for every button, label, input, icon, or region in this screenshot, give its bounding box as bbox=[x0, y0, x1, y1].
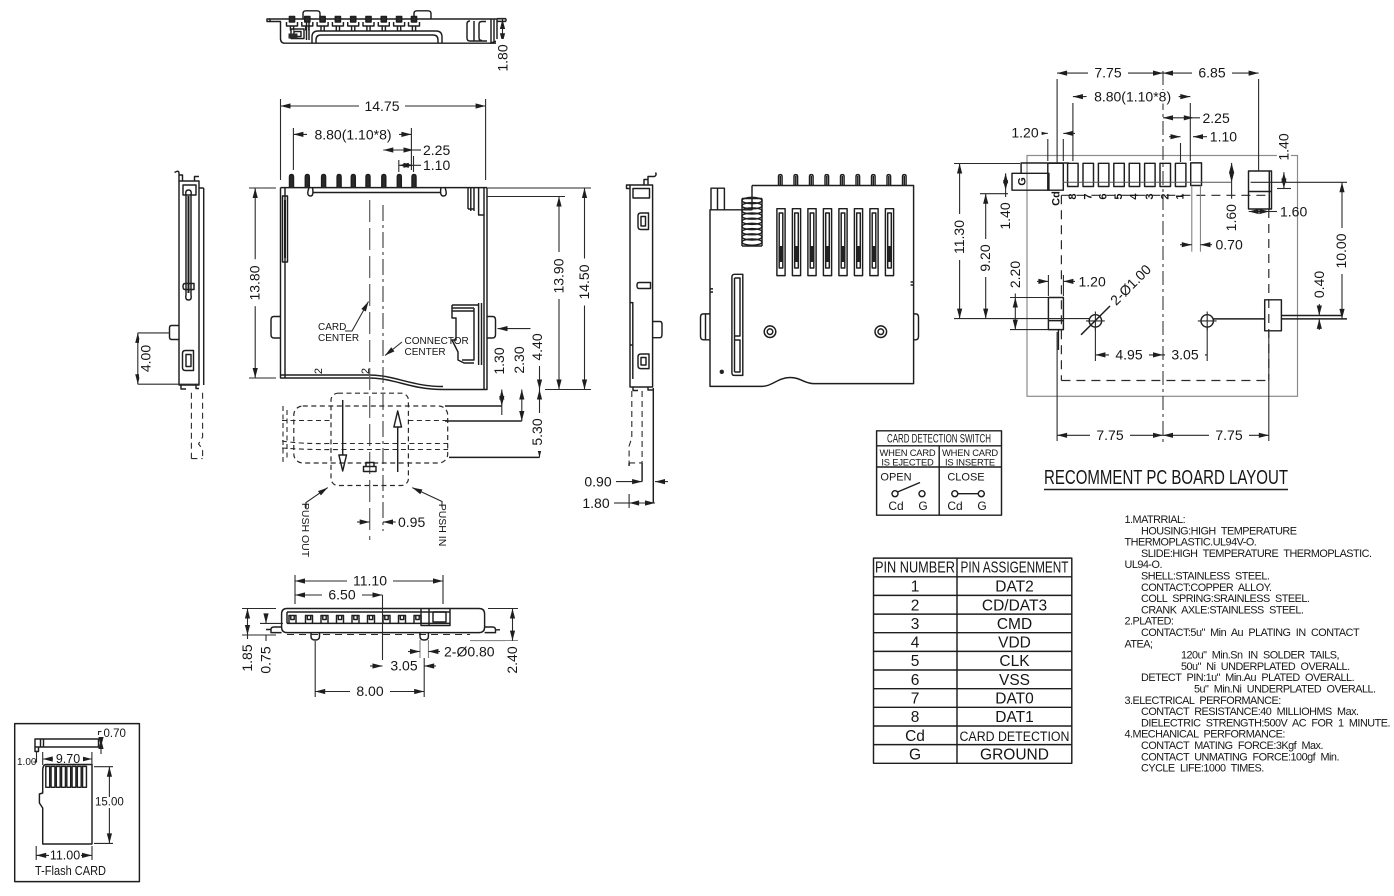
svg-text:6: 6 bbox=[911, 672, 920, 689]
top view right flange bbox=[490, 19, 506, 44]
view: connector top view bbox=[267, 11, 511, 77]
right side dashed tail bbox=[629, 391, 632, 463]
svg-text:G: G bbox=[918, 499, 927, 513]
top view pins row bbox=[287, 17, 420, 27]
front view body outline bbox=[281, 188, 488, 390]
svg-text:11.00: 11.00 bbox=[50, 848, 80, 862]
dim 1.80 bbox=[614, 502, 629, 504]
svg-text:8: 8 bbox=[911, 709, 920, 726]
svg-text:4: 4 bbox=[911, 635, 920, 652]
svg-text:1.10: 1.10 bbox=[423, 157, 450, 173]
svg-text:14.75: 14.75 bbox=[364, 98, 399, 114]
dim pcb 8.80(1.10*8) bbox=[1072, 103, 1074, 161]
dim pcb 4.95 bbox=[1094, 328, 1096, 361]
dim 13.80 bbox=[249, 187, 276, 189]
bsv right flange bbox=[485, 627, 500, 633]
top view pin stems bbox=[290, 26, 415, 31]
svg-text:CYCLE LIFE:1000 TIMES.: CYCLE LIFE:1000 TIMES. bbox=[1141, 763, 1264, 775]
top view bump left bbox=[303, 11, 320, 19]
top view bump right bbox=[414, 11, 431, 19]
pcb G pad bbox=[1012, 173, 1049, 190]
left side bottom feet bbox=[181, 385, 199, 389]
svg-text:CARD: CARD bbox=[318, 322, 346, 333]
right side skirt lines bbox=[629, 388, 653, 503]
dim 4.00 bbox=[138, 332, 170, 334]
svg-text:CLOSE: CLOSE bbox=[947, 472, 984, 484]
card front outline bbox=[39, 765, 92, 845]
svg-text:10.00: 10.00 bbox=[1333, 233, 1349, 268]
svg-text:2.20: 2.20 bbox=[1007, 261, 1023, 288]
svg-text:SLIDE:HIGH TEMPERATURE THERMOP: SLIDE:HIGH TEMPERATURE THERMOPLASTIC. bbox=[1141, 548, 1372, 560]
svg-text:G: G bbox=[1017, 177, 1029, 186]
svg-text:4.00: 4.00 bbox=[138, 345, 154, 372]
dim 14.50 bbox=[487, 187, 591, 189]
svg-text:CARD DETECTION SWITCH: CARD DETECTION SWITCH bbox=[887, 433, 991, 445]
svg-text:G: G bbox=[909, 747, 921, 764]
pcb G pad step join bbox=[1021, 163, 1069, 173]
svg-text:Cd: Cd bbox=[905, 728, 925, 745]
left side mid pill bbox=[183, 284, 194, 290]
bottom view pins bbox=[779, 175, 907, 186]
dim pcb 7.75 top left bbox=[1056, 79, 1058, 163]
svg-text:1.60: 1.60 bbox=[1223, 204, 1239, 231]
view: bottom side (mounting) view bbox=[239, 573, 520, 700]
push-out arrow (open head, down) bbox=[342, 400, 344, 455]
svg-text:CARD DETECTION: CARD DETECTION bbox=[960, 729, 1070, 744]
svg-text:8.80(1.10*8): 8.80(1.10*8) bbox=[314, 127, 391, 143]
svg-text:1.80: 1.80 bbox=[495, 44, 511, 71]
svg-text:CONNECTOR: CONNECTOR bbox=[405, 336, 469, 347]
left side dashed tail bbox=[190, 393, 192, 459]
dim pcb 10.00 bbox=[1251, 181, 1347, 183]
svg-text:1.MATRRIAL:: 1.MATRRIAL: bbox=[1125, 514, 1186, 526]
svg-text:Cd: Cd bbox=[888, 499, 903, 513]
view: T-Flash card detail bbox=[15, 724, 140, 882]
front view right side bump bbox=[487, 317, 496, 339]
dim pcb 1.60 horizontal bbox=[1249, 211, 1270, 213]
dim pcb 3.05 bbox=[1206, 328, 1208, 361]
dim 8.00 bbox=[314, 641, 316, 697]
svg-text:DAT2: DAT2 bbox=[995, 579, 1033, 596]
bottom view edge notches bbox=[710, 282, 914, 292]
bsv hidden bottom dashed bbox=[287, 634, 470, 636]
dim 2.30 bbox=[445, 420, 522, 422]
view: connector bottom view bbox=[701, 175, 919, 387]
right side body bbox=[630, 185, 653, 387]
dim 1.30 bbox=[445, 405, 502, 407]
dim pcb 0.40 bbox=[1318, 304, 1320, 316]
svg-text:11.10: 11.10 bbox=[353, 573, 387, 589]
view: dashed ejected card region below front view bbox=[282, 328, 545, 558]
left side top hook bbox=[175, 171, 183, 181]
left side lower window bbox=[183, 351, 194, 371]
svg-text:COLL SPRING:SRAINLESS STEEL.: COLL SPRING:SRAINLESS STEEL. bbox=[1141, 593, 1310, 605]
svg-text:CRANK AXLE:STAINLESS STEEL.: CRANK AXLE:STAINLESS STEEL. bbox=[1141, 604, 1304, 616]
bottom view mount holes bbox=[764, 326, 776, 338]
card side view bar bbox=[35, 739, 99, 752]
svg-text:7: 7 bbox=[911, 691, 920, 708]
top view inner slide bbox=[312, 31, 442, 43]
dim pcb 1.20 top bbox=[1047, 139, 1049, 161]
svg-text:CONTACT UNMATING FORCE:100gf M: CONTACT UNMATING FORCE:100gf Min. bbox=[1141, 751, 1339, 763]
dim pcb 0.70 bbox=[1191, 186, 1193, 252]
dim 2.40 bbox=[488, 608, 518, 610]
pcb centerline dash-dot bbox=[1162, 71, 1164, 442]
svg-text:4.40: 4.40 bbox=[529, 333, 545, 360]
front view bottom inner line bbox=[281, 375, 444, 387]
svg-text:8: 8 bbox=[1067, 193, 1079, 199]
right side mid pill bbox=[637, 283, 651, 289]
svg-text:6: 6 bbox=[1098, 193, 1110, 199]
svg-text:5.30: 5.30 bbox=[529, 418, 545, 445]
dim 15.00 card bbox=[94, 766, 113, 768]
svg-text:CONTACT RESISTANCE:40 MILLIOHM: CONTACT RESISTANCE:40 MILLIOHMS Max. bbox=[1141, 706, 1359, 718]
svg-text:120u" Min.Sn IN SOLDER TAILS,: 120u" Min.Sn IN SOLDER TAILS, bbox=[1181, 650, 1340, 662]
dim pcb 7.75 bottom right bbox=[1268, 332, 1270, 441]
svg-text:0.90: 0.90 bbox=[584, 474, 611, 490]
dim 0.70 card bbox=[98, 731, 100, 735]
top view right inner detail bbox=[467, 21, 487, 41]
connector center line (dash-dot) bbox=[382, 205, 384, 531]
pcb left bottom pad bbox=[1048, 298, 1063, 330]
t-flash frame box bbox=[15, 724, 140, 882]
svg-text:1.20: 1.20 bbox=[1079, 273, 1106, 289]
pcb mount hole right bbox=[1201, 315, 1213, 327]
svg-text:T-Flash CARD: T-Flash CARD bbox=[35, 863, 106, 878]
dim pcb 7.75 bottom left bbox=[1056, 332, 1058, 441]
label PUSH OUT bbox=[306, 488, 328, 508]
svg-text:50u" Ni UNDERPLATED OVERALL.: 50u" Ni UNDERPLATED OVERALL. bbox=[1181, 661, 1350, 673]
dim pcb 6.85 top right bbox=[1258, 79, 1260, 171]
pcb mount hole left bbox=[1089, 315, 1101, 327]
front view pins bbox=[290, 175, 417, 188]
part number 2 marks rotated bbox=[313, 368, 325, 374]
dim 1.85 bbox=[242, 608, 276, 610]
svg-text:4.95: 4.95 bbox=[1115, 346, 1142, 362]
dim 14.75 bbox=[280, 99, 282, 180]
svg-text:0.70: 0.70 bbox=[104, 728, 126, 740]
dim 5.30 bbox=[449, 456, 540, 458]
svg-text:5: 5 bbox=[911, 653, 920, 670]
dim 4.40 bbox=[498, 328, 540, 330]
dashed card rect horizontal position bbox=[294, 406, 448, 463]
svg-text:2.25: 2.25 bbox=[423, 142, 450, 158]
bsv contact feet row bbox=[289, 616, 421, 624]
dim 1.80 top view bbox=[502, 19, 504, 43]
svg-text:1.40: 1.40 bbox=[997, 202, 1013, 229]
pcb contact pads 8..1 bbox=[1068, 163, 1186, 186]
svg-text:7: 7 bbox=[1082, 193, 1094, 199]
svg-text:5u" Min.Ni UNDERPLATED OVERALL: 5u" Min.Ni UNDERPLATED OVERALL. bbox=[1194, 684, 1376, 696]
svg-text:DETECT PIN:1u" Min.Au PLATED O: DETECT PIN:1u" Min.Au PLATED OVERALL. bbox=[1141, 672, 1355, 684]
bottom view contact dark segments bbox=[781, 246, 890, 262]
svg-text:UL94-O.: UL94-O. bbox=[1125, 559, 1163, 571]
open switch symbol bbox=[892, 491, 898, 497]
dim pcb 1.20 bbox=[1047, 275, 1049, 296]
table: pin assignment bbox=[874, 558, 1072, 763]
card contact stripes bbox=[46, 766, 87, 787]
svg-text:7.75: 7.75 bbox=[1096, 427, 1123, 443]
svg-text:IS INSERTE: IS INSERTE bbox=[945, 457, 995, 468]
svg-text:2.40: 2.40 bbox=[504, 646, 520, 673]
pcb pad number labels bbox=[1017, 177, 1187, 206]
bottom view side bumps bbox=[701, 314, 711, 340]
dim 9.70 card bbox=[42, 752, 44, 765]
svg-text:HOUSING:HIGH TEMPERATURE: HOUSING:HIGH TEMPERATURE bbox=[1141, 525, 1297, 537]
dim pcb 2.20 bbox=[1010, 297, 1048, 299]
svg-text:4.MECHANICAL PERFORMANCE:: 4.MECHANICAL PERFORMANCE: bbox=[1125, 729, 1286, 741]
pcb drill callout 2-dia1.00 bbox=[1081, 306, 1110, 335]
left side slot bbox=[186, 190, 191, 300]
view: recommended PC board layout bbox=[951, 65, 1349, 490]
svg-text:6.85: 6.85 bbox=[1198, 65, 1225, 81]
svg-text:1.40: 1.40 bbox=[1275, 133, 1291, 160]
left side 4.00 reference bump bbox=[170, 326, 180, 340]
svg-text:OPEN: OPEN bbox=[880, 472, 911, 484]
top view left mount tab bbox=[267, 19, 270, 22]
view: left side view bbox=[138, 171, 204, 458]
svg-text:2-Ø0.80: 2-Ø0.80 bbox=[444, 644, 495, 660]
svg-text:3: 3 bbox=[911, 616, 920, 633]
pcb board outline (gray) bbox=[1027, 156, 1298, 397]
svg-text:2.30: 2.30 bbox=[511, 346, 527, 373]
svg-text:1.10: 1.10 bbox=[1210, 129, 1237, 145]
svg-text:DIELECTRIC STRENGTH:500V AC FO: DIELECTRIC STRENGTH:500V AC FOR 1 MINUTE… bbox=[1141, 717, 1390, 729]
label PUSH IN bbox=[412, 488, 442, 507]
svg-text:7.75: 7.75 bbox=[1094, 65, 1121, 81]
svg-text:1.30: 1.30 bbox=[491, 347, 507, 374]
front view right latch bbox=[452, 303, 482, 365]
dashed card rect vertical position bbox=[331, 393, 408, 485]
right side upper square bbox=[638, 213, 649, 230]
svg-text:Cd: Cd bbox=[1051, 191, 1063, 206]
pcb dashed footprint outline bbox=[1061, 195, 1268, 380]
dim 1.10 bbox=[398, 160, 400, 172]
svg-text:1: 1 bbox=[1175, 193, 1187, 199]
svg-text:2.25: 2.25 bbox=[1203, 110, 1230, 126]
svg-text:0.70: 0.70 bbox=[1216, 237, 1243, 253]
svg-text:CONTACT:5u" Min Au PLATING IN: CONTACT:5u" Min Au PLATING IN CONTACT bbox=[1141, 627, 1360, 639]
svg-text:DAT1: DAT1 bbox=[995, 709, 1033, 726]
svg-text:5: 5 bbox=[1113, 193, 1125, 199]
notes text block bbox=[1125, 514, 1391, 775]
svg-text:PIN ASSIGENMENT: PIN ASSIGENMENT bbox=[961, 560, 1069, 577]
svg-text:DAT0: DAT0 bbox=[995, 691, 1034, 708]
bsv right detail box bbox=[421, 609, 450, 626]
svg-text:3.ELECTRICAL PERFORMANCE:: 3.ELECTRICAL PERFORMANCE: bbox=[1125, 695, 1282, 707]
svg-text:15.00: 15.00 bbox=[95, 797, 124, 809]
card center line (long dash) bbox=[369, 200, 371, 540]
push-in arrow (open head, up) bbox=[397, 427, 399, 472]
dim pcb 1.60 vertical bbox=[1231, 163, 1233, 182]
dim 6.50 bbox=[295, 594, 383, 596]
right side inner top bbox=[633, 189, 650, 199]
dashed inner card lines bbox=[282, 420, 448, 422]
svg-text:2: 2 bbox=[1159, 193, 1171, 199]
front view left contact strip bbox=[283, 196, 288, 262]
left side inner top bbox=[183, 185, 196, 195]
bsv left flange bbox=[266, 627, 282, 633]
dim 3.05 bbox=[370, 665, 383, 667]
right side top hook bbox=[627, 173, 657, 189]
pcb right bottom pad bbox=[1265, 300, 1282, 331]
front view left side bump bbox=[271, 317, 281, 339]
svg-text:VSS: VSS bbox=[999, 672, 1030, 689]
svg-text:13.80: 13.80 bbox=[247, 265, 263, 300]
closed switch symbol bbox=[952, 491, 958, 497]
svg-text:8.00: 8.00 bbox=[356, 683, 383, 699]
svg-text:3.05: 3.05 bbox=[390, 658, 417, 674]
svg-text:3.05: 3.05 bbox=[1171, 346, 1198, 362]
right side bump bbox=[653, 322, 662, 338]
bsv body bbox=[282, 609, 485, 633]
pcb right top pad bbox=[1249, 171, 1272, 209]
svg-text:G: G bbox=[977, 499, 986, 513]
dim 11.10 bbox=[294, 575, 296, 604]
front view right top block bbox=[468, 188, 484, 215]
svg-text:IS EJECTED: IS EJECTED bbox=[881, 457, 934, 468]
pcb under-pad reference line bbox=[1063, 181, 1232, 183]
right side left thin strip bbox=[630, 303, 633, 379]
dim 13.90 bbox=[487, 196, 565, 198]
svg-text:3: 3 bbox=[1144, 193, 1156, 199]
view: right side view bbox=[578, 173, 668, 512]
svg-text:RECOMMENT PC BOARD LAYOUT: RECOMMENT PC BOARD LAYOUT bbox=[1044, 466, 1288, 489]
svg-text:2: 2 bbox=[911, 597, 920, 614]
svg-text:CMD: CMD bbox=[997, 616, 1032, 633]
svg-text:13.90: 13.90 bbox=[551, 258, 567, 293]
svg-text:CLK: CLK bbox=[999, 653, 1030, 670]
dim pcb 1.40 left bbox=[1005, 173, 1007, 190]
svg-text:2.PLATED:: 2.PLATED: bbox=[1125, 616, 1174, 628]
table: card detection switch bbox=[877, 431, 1002, 515]
svg-text:14.50: 14.50 bbox=[576, 264, 592, 299]
svg-text:11.30: 11.30 bbox=[951, 220, 967, 254]
svg-text:9.20: 9.20 bbox=[977, 244, 993, 271]
svg-text:0.75: 0.75 bbox=[258, 646, 274, 673]
dim pcb 11.30 bbox=[954, 163, 1020, 165]
svg-text:CENTER: CENTER bbox=[405, 347, 446, 358]
bsv right peg bbox=[420, 633, 428, 640]
dim pcb 9.20 bbox=[980, 193, 1008, 195]
svg-text:7.75: 7.75 bbox=[1215, 427, 1242, 443]
svg-text:PIN NUMBER: PIN NUMBER bbox=[875, 560, 955, 577]
svg-text:Cd: Cd bbox=[947, 499, 962, 513]
bottom view outline bbox=[710, 186, 914, 387]
dim pcb 1.40 right bbox=[1275, 128, 1291, 166]
bottom view 8 contact slots bbox=[777, 209, 894, 276]
svg-text:1.85: 1.85 bbox=[239, 644, 255, 671]
dim 0.95 bbox=[357, 521, 370, 523]
dim 0.75 bbox=[260, 622, 283, 624]
svg-text:ATEA;: ATEA; bbox=[1125, 638, 1154, 650]
bottom view spring coil bbox=[742, 197, 762, 246]
svg-text:2: 2 bbox=[313, 368, 325, 374]
view: connector front view bbox=[247, 98, 592, 540]
bsv left peg bbox=[311, 633, 320, 640]
pcb hole link line bbox=[1213, 316, 1347, 319]
dim 2-dia0.80 bbox=[419, 640, 421, 658]
svg-text:THERMOPLASTIC.UL94V-O.: THERMOPLASTIC.UL94V-O. bbox=[1125, 537, 1257, 549]
svg-text:CONTACT MATING FORCE:3Kgf Max.: CONTACT MATING FORCE:3Kgf Max. bbox=[1141, 740, 1323, 752]
svg-text:VDD: VDD bbox=[998, 635, 1031, 652]
svg-text:1: 1 bbox=[911, 579, 920, 596]
dim pcb 1.10 bbox=[1169, 136, 1181, 138]
svg-text:SHELL:STAINLESS STEEL.: SHELL:STAINLESS STEEL. bbox=[1141, 571, 1270, 583]
svg-text:PUSH OUT: PUSH OUT bbox=[299, 503, 311, 558]
dim 11.00 card bbox=[35, 846, 37, 860]
dim 2.25 bbox=[413, 156, 415, 172]
right side bottom feet bbox=[633, 387, 653, 391]
svg-text:1.60: 1.60 bbox=[1280, 204, 1307, 220]
svg-text:PUSH IN: PUSH IN bbox=[436, 504, 448, 547]
svg-text:CD/DAT3: CD/DAT3 bbox=[982, 597, 1047, 614]
front view top rail with end hooks bbox=[308, 188, 446, 196]
right side lower square bbox=[638, 354, 649, 369]
svg-text:4: 4 bbox=[1129, 193, 1141, 200]
bottom view rivet dot bbox=[720, 370, 724, 374]
svg-text:6.50: 6.50 bbox=[328, 587, 355, 603]
dim pcb 2.25 bbox=[1163, 117, 1194, 119]
svg-text:CONTACT:COPPER ALLOY.: CONTACT:COPPER ALLOY. bbox=[1141, 582, 1272, 594]
bottom view left long slot bbox=[732, 274, 743, 375]
svg-text:8.80(1.10*8): 8.80(1.10*8) bbox=[1094, 89, 1171, 105]
svg-text:CENTER: CENTER bbox=[318, 333, 359, 344]
pcb Cd pad bbox=[1048, 163, 1064, 190]
svg-text:GROUND: GROUND bbox=[980, 747, 1049, 764]
left side body bbox=[179, 181, 204, 385]
dim 8.80(1.10*8) bbox=[292, 128, 294, 170]
top view body shell bbox=[270, 19, 497, 43]
detent detail bbox=[364, 463, 377, 472]
svg-text:1.20: 1.20 bbox=[1011, 124, 1038, 140]
svg-text:0.95: 0.95 bbox=[398, 514, 425, 530]
pcb wide pad right of pin1 bbox=[1191, 163, 1202, 186]
top view left inner detail bbox=[291, 22, 309, 40]
svg-text:1.80: 1.80 bbox=[582, 495, 609, 511]
svg-text:0.40: 0.40 bbox=[1311, 271, 1327, 298]
dim 0.90 bbox=[616, 481, 642, 483]
